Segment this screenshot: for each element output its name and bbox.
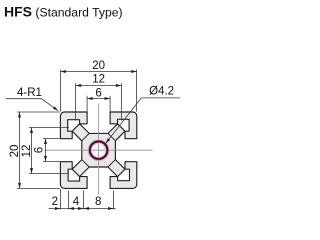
svg-text:20: 20 <box>92 60 105 72</box>
svg-text:2: 2 <box>52 196 58 208</box>
svg-text:20: 20 <box>9 145 21 158</box>
horizontal centerline <box>44 149 153 151</box>
svg-text:HFS (Standard Type): HFS (Standard Type) <box>4 4 123 20</box>
top dimension 20: extension lines, line, arrows, text <box>60 70 136 112</box>
core corner chamfer edges <box>82 133 116 167</box>
center hole fill <box>90 141 108 159</box>
vertical centerline <box>98 104 100 195</box>
svg-text:12: 12 <box>21 145 33 158</box>
svg-text:4: 4 <box>73 196 80 208</box>
left dimension 6 <box>43 139 60 162</box>
svg-text:4-R1: 4-R1 <box>17 87 42 99</box>
svg-text:6: 6 <box>95 87 101 99</box>
top dimension 6 <box>87 96 110 112</box>
top dimension 12 <box>76 83 122 120</box>
left dimension 20 <box>17 112 60 188</box>
corner radius label 4-R1 with leader <box>6 99 59 111</box>
svg-text:6: 6 <box>34 147 46 153</box>
bottom dimension chain 2 / 4 / 8 <box>49 189 116 210</box>
svg-text:8: 8 <box>95 196 101 208</box>
svg-text:12: 12 <box>92 74 105 86</box>
extrusion profile cross-section body <box>60 112 136 188</box>
left dimension 12 <box>29 128 69 174</box>
hole highlight ring (magenta glow + dark ring) <box>90 141 108 159</box>
hole diameter label &#216;4.2 with leader <box>106 98 180 143</box>
svg-text:Ø4.2: Ø4.2 <box>149 86 174 98</box>
